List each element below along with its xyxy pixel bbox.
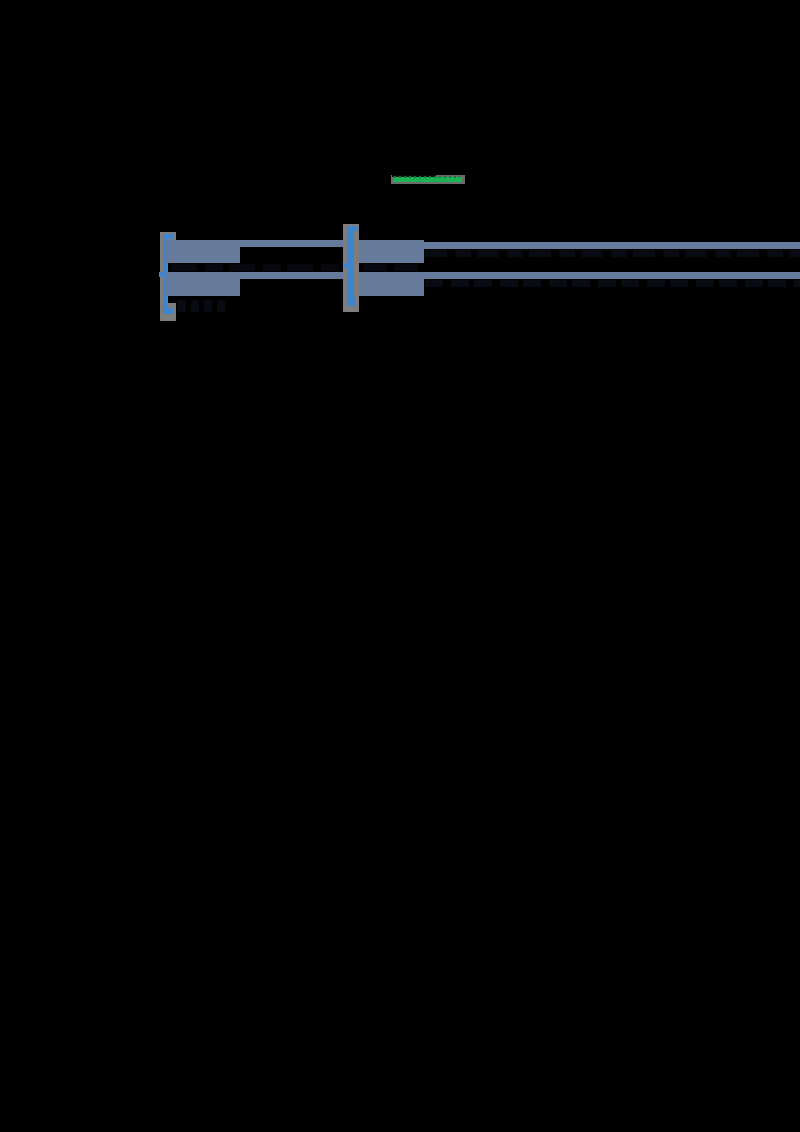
brace group 2 gray band <box>343 224 359 312</box>
faint dark text under row 1 right rule <box>425 250 800 257</box>
row 2 selected block right <box>359 272 424 296</box>
row 1 rule right segment <box>424 242 800 249</box>
brace group 1 gray band top <box>160 232 176 240</box>
brace 2 middle nub <box>344 263 348 268</box>
row 1 selected block right <box>359 240 424 263</box>
row 2 selected block left <box>166 272 240 296</box>
brace 2 bottom hook <box>347 297 356 306</box>
brace 1 top hook <box>167 234 173 239</box>
faint dark text in gap between rows, right span <box>363 264 424 271</box>
green link box outline <box>391 175 465 184</box>
row 1 selected block left <box>166 240 240 263</box>
green link text bar <box>393 177 462 182</box>
faint dark text under row 2 right rule <box>425 280 800 287</box>
faint dark text in gap between rows, left span <box>171 264 343 271</box>
brace 2 top hook <box>354 226 358 231</box>
brace 1 bottom hook <box>163 308 173 314</box>
faint dark text under row 2 left blocks <box>178 300 226 312</box>
row 1 rule middle segment <box>240 240 343 247</box>
row 2 rule right segment <box>424 272 800 279</box>
brace 1 stem <box>163 234 167 313</box>
brace group 1 gray band bottom <box>160 303 176 321</box>
brace group 1 gray band shaft <box>160 240 168 303</box>
row 2 rule middle segment <box>240 272 343 279</box>
green link text ascender texture <box>394 176 460 178</box>
brace 1 middle nub <box>159 272 163 277</box>
brace 2 stem <box>347 226 354 305</box>
green link box dark top-left cover <box>392 175 436 177</box>
